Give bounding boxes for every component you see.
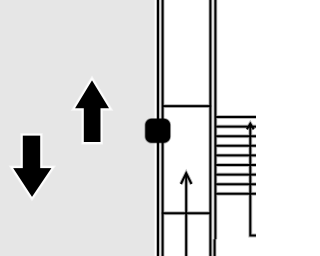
node marker (black rounded square on wall) [145,119,170,143]
crisp core pass of line-work [158,0,256,256]
gray area (left zone of plan) [0,0,155,256]
big up arrow (solid) [74,79,111,143]
soft halo pass of line-work [158,0,256,256]
big down arrow (solid) [12,135,53,199]
